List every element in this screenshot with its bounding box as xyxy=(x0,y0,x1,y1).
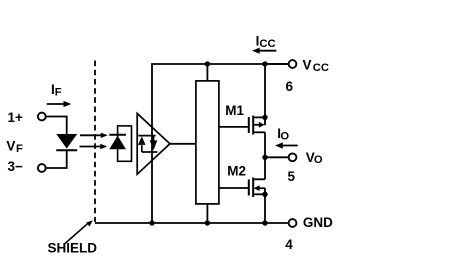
svg-text:M1: M1 xyxy=(225,103,244,118)
svg-text:V: V xyxy=(6,138,15,153)
svg-text:O: O xyxy=(280,130,289,142)
svg-text:CC: CC xyxy=(313,62,329,74)
svg-text:V: V xyxy=(303,58,312,73)
svg-text:O: O xyxy=(314,154,323,166)
svg-text:CC: CC xyxy=(259,38,275,50)
svg-text:GND: GND xyxy=(303,215,333,230)
svg-text:3−: 3− xyxy=(8,159,24,174)
svg-text:1+: 1+ xyxy=(8,110,24,125)
svg-text:4: 4 xyxy=(285,237,293,252)
svg-text:F: F xyxy=(16,143,23,155)
svg-text:F: F xyxy=(55,86,62,98)
svg-text:SHIELD: SHIELD xyxy=(48,241,98,256)
svg-text:6: 6 xyxy=(286,79,294,94)
svg-text:M2: M2 xyxy=(227,164,246,179)
svg-text:5: 5 xyxy=(288,169,296,184)
